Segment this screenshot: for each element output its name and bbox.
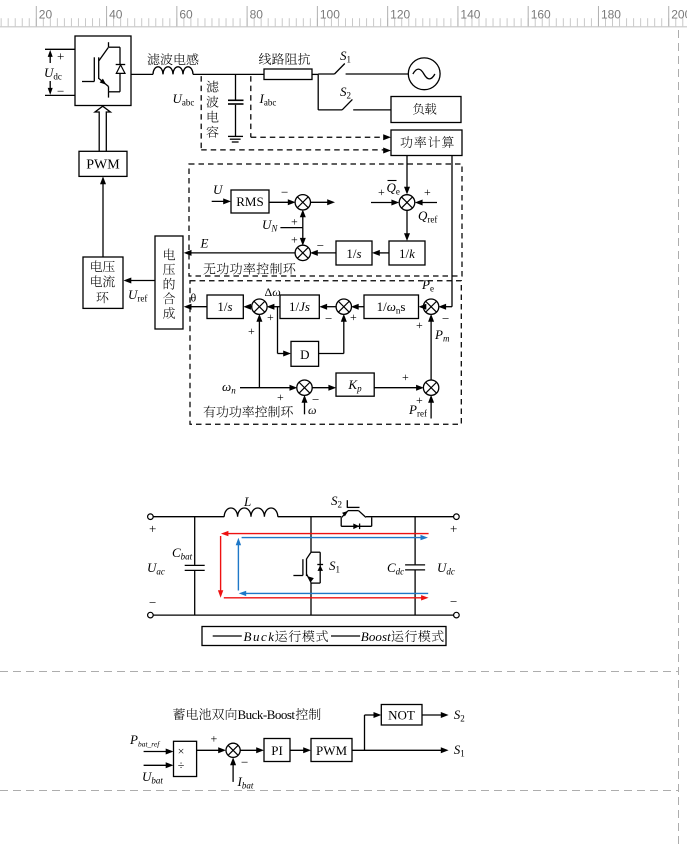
svg-text:1/s: 1/s — [346, 246, 361, 261]
svg-text:+: + — [291, 233, 298, 247]
svg-text:+: + — [291, 214, 298, 228]
svg-text:1/ωns: 1/ωns — [377, 299, 406, 316]
svg-text:+: + — [416, 318, 423, 332]
svg-text:−: − — [57, 84, 64, 99]
svg-text:160: 160 — [531, 8, 551, 22]
svg-text:+: + — [424, 185, 431, 199]
svg-text:θ: θ — [191, 291, 197, 305]
svg-text:100: 100 — [320, 8, 340, 22]
svg-text:1/Js: 1/Js — [289, 299, 310, 314]
svg-text:1/k: 1/k — [399, 246, 415, 261]
svg-text:Buck: Buck — [244, 629, 275, 644]
svg-text:+: + — [450, 521, 457, 536]
svg-text:+: + — [57, 49, 64, 64]
svg-text:D: D — [300, 347, 309, 362]
svg-text:+: + — [248, 324, 255, 338]
svg-text:40: 40 — [109, 8, 123, 22]
svg-text:×: × — [178, 744, 185, 758]
svg-text:E: E — [200, 236, 209, 251]
svg-text:Δω: Δω — [265, 285, 281, 299]
svg-text:+: + — [402, 370, 409, 384]
svg-text:−: − — [317, 238, 324, 253]
svg-text:ω: ω — [308, 403, 316, 417]
svg-text:200: 200 — [671, 8, 687, 22]
svg-text:20: 20 — [39, 8, 53, 22]
svg-text:U: U — [213, 182, 224, 197]
svg-text:÷: ÷ — [178, 758, 185, 772]
svg-text:1/s: 1/s — [217, 299, 232, 314]
svg-text:Buck-Boost: Buck-Boost — [238, 707, 296, 722]
svg-text:+: + — [416, 393, 423, 407]
svg-text:+: + — [149, 521, 156, 536]
svg-text:NOT: NOT — [388, 708, 415, 723]
svg-text:L: L — [243, 494, 251, 509]
svg-text:PWM: PWM — [86, 158, 120, 173]
svg-text:−: − — [149, 595, 156, 610]
svg-text:−: − — [325, 311, 332, 326]
svg-text:−: − — [442, 311, 449, 326]
svg-text:PI: PI — [271, 743, 283, 758]
svg-text:+: + — [211, 732, 218, 746]
svg-text:−: − — [450, 594, 457, 609]
svg-text:120: 120 — [390, 8, 410, 22]
svg-text:RMS: RMS — [236, 194, 263, 209]
svg-text:Boost: Boost — [361, 629, 391, 644]
svg-text:180: 180 — [601, 8, 621, 22]
svg-text:140: 140 — [460, 8, 480, 22]
svg-text:PWM: PWM — [316, 743, 348, 758]
svg-text:−: − — [241, 755, 248, 770]
svg-text:60: 60 — [179, 8, 193, 22]
svg-text:80: 80 — [250, 8, 264, 22]
svg-text:−: − — [281, 184, 288, 199]
svg-text:+: + — [277, 390, 284, 404]
svg-text:+: + — [378, 185, 385, 199]
svg-text:+: + — [267, 310, 274, 324]
svg-text:+: + — [350, 310, 357, 324]
